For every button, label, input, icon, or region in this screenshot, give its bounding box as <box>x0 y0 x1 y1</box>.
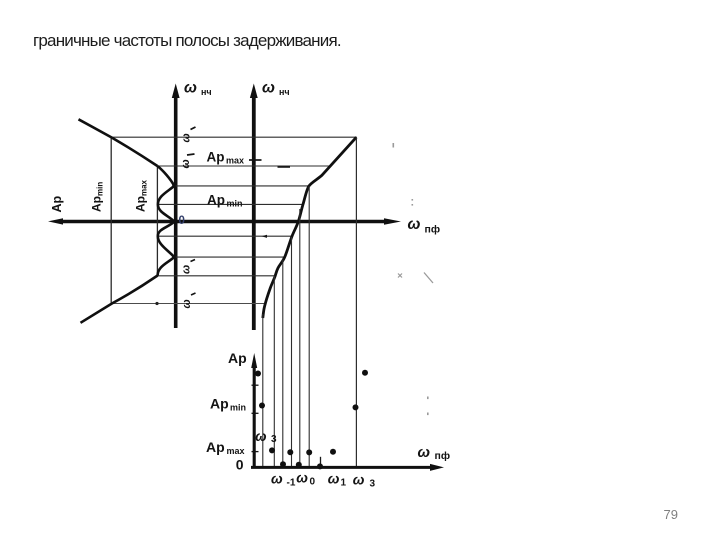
data dot at Ap_min level at omega_3 <box>353 404 359 410</box>
small wedge mark on L5 <box>262 235 268 238</box>
floating data dot right of omega_3 line <box>362 370 368 376</box>
svg-text:0: 0 <box>236 457 244 473</box>
rotated label Ap_min <box>90 182 105 212</box>
right vertical edge / omega_3 drop line <box>355 137 357 467</box>
drop line from L7 end <box>273 276 275 467</box>
svg-text:Ap: Ap <box>210 396 229 412</box>
svg-text:-1: -1 <box>287 478 296 489</box>
data dot at Ap_min level <box>259 403 265 409</box>
svg-text:ω: ω <box>181 265 193 274</box>
rotated axis label omega'-2 <box>181 293 196 309</box>
svg-text:1: 1 <box>341 478 347 489</box>
label omega_nch #1 <box>184 80 212 98</box>
tick 2 on Ap axis <box>252 412 259 414</box>
svg-text:ω: ω <box>184 80 197 97</box>
left arrowhead of Ap axis <box>48 218 63 224</box>
drop line from curve bottom end <box>262 314 264 467</box>
label Ap_min (bottom plot) <box>210 396 246 413</box>
horizontal transfer line L8 (omega'-2 level) <box>111 303 264 305</box>
svg-text:ω: ω <box>180 159 192 168</box>
svg-text:Ap: Ap <box>206 439 225 455</box>
data dot near top of Ap axis <box>255 371 261 377</box>
label omega_pf (bottom) <box>418 444 451 462</box>
svg-text:79: 79 <box>664 507 678 522</box>
svg-text:нч: нч <box>279 87 290 97</box>
horizontal transfer line L1 (omega'2 level) <box>111 136 357 138</box>
axis omega_nch #2 (second vertical axis) <box>252 96 256 330</box>
upper skirt diagonal of LP prototype attenuation <box>79 119 158 166</box>
svg-text:Ap: Ap <box>50 195 64 212</box>
svg-text:ω: ω <box>255 429 266 444</box>
label Ap_max (between axes) with dash <box>207 150 262 166</box>
tick label omega_3 (bottom axis) <box>353 472 376 490</box>
svg-text:0: 0 <box>179 215 185 227</box>
tick label omega_-1 <box>271 471 296 489</box>
tick label omega_0 <box>296 470 315 488</box>
data dot on axis right of omega_0 <box>317 463 323 469</box>
svg-text:ω: ω <box>181 133 193 142</box>
data dot on axis at omega_0 <box>296 462 302 468</box>
main horizontal axis Ap / omega_pf <box>58 220 385 223</box>
label Ap_max (bottom plot) <box>206 439 245 456</box>
small dot on L8 <box>155 302 158 305</box>
faint scan specks <box>393 143 434 415</box>
rotated axis label omega'-1 <box>181 260 196 275</box>
small tick above axis between omega_0 and omega_1 <box>320 457 322 467</box>
tick 3 on Ap axis <box>252 451 259 453</box>
drop line (L3 map) <box>308 186 310 467</box>
tick 1 on Ap axis <box>252 384 259 386</box>
svg-text:Ap: Ap <box>228 350 247 366</box>
svg-text:3: 3 <box>370 479 376 490</box>
label omega_pf (upper) <box>408 216 441 236</box>
horizontal transfer line L7 (omega'-1 level) <box>158 275 275 277</box>
svg-text:Ap: Ap <box>207 150 225 165</box>
frequency transformation curve <box>263 137 357 318</box>
svg-text:ω: ω <box>262 80 275 97</box>
drop line (L5 map) <box>291 237 293 467</box>
label omega_nch #2 <box>262 80 290 98</box>
svg-text:min: min <box>227 199 243 209</box>
chebyshev ripple of passband (rotated) <box>157 166 174 276</box>
darker blob on L2 <box>278 166 291 168</box>
data dot at Ap_max level (left) <box>269 447 275 453</box>
horizontal transfer line L3 <box>172 185 309 187</box>
vertical Ap_max level line <box>156 166 158 276</box>
svg-text:нч: нч <box>201 87 212 97</box>
svg-text:max: max <box>226 156 244 166</box>
Ap axis (bottom plot) <box>253 364 256 468</box>
data dot at Ap_max level at omega_1 <box>330 449 336 455</box>
drop line (L4 map) <box>299 209 301 467</box>
svg-text:0: 0 <box>310 477 316 488</box>
drop line (curve near L6) <box>282 260 284 468</box>
svg-text:ω: ω <box>328 471 340 487</box>
svg-text:min: min <box>230 403 246 413</box>
svg-text:ω: ω <box>271 471 283 487</box>
svg-text:ω: ω <box>418 444 431 461</box>
svg-text:пф: пф <box>425 224 441 236</box>
rotated axis label omega'2 <box>181 127 196 143</box>
horizontal transfer line L4 (Ap min label level) <box>158 203 303 205</box>
rotated label Ap_max <box>134 179 149 212</box>
svg-text:граничные частоты полосы задер: граничные частоты полосы задерживания. <box>33 31 341 50</box>
data dot at Ap_max level (third) <box>306 449 312 455</box>
horizontal transfer line L6 <box>172 256 285 258</box>
svg-text:пф: пф <box>435 450 451 462</box>
svg-text:ω: ω <box>296 470 308 486</box>
omega_pf axis (bottom plot) <box>251 466 432 469</box>
lower skirt diagonal of LP prototype attenuation <box>81 276 158 323</box>
svg-text:Ap: Ap <box>207 193 225 208</box>
svg-text:ω: ω <box>353 472 365 488</box>
svg-text:3: 3 <box>271 434 277 445</box>
tick label omega_1 <box>328 471 347 489</box>
svg-text:ω: ω <box>408 216 421 233</box>
vertical Ap_min level line <box>110 137 112 304</box>
data dot at Ap_max level (second) <box>287 449 293 455</box>
axis omega_nch #1 (left vertical axis of LP prototype) <box>174 96 178 328</box>
inner label omega_3 <box>255 429 277 445</box>
horizontal transfer line L5 <box>158 235 292 237</box>
svg-text:max: max <box>227 446 245 456</box>
svg-text:ω: ω <box>181 299 193 308</box>
data dot on axis at omega_-1 <box>280 461 286 467</box>
right arrowhead of omega_pf axis <box>384 218 401 225</box>
label Ap_min (between axes) <box>207 193 243 209</box>
rotated axis label omega'1 <box>180 154 195 169</box>
horizontal transfer line L2 (omega'1 / Ap max level) <box>157 165 330 167</box>
